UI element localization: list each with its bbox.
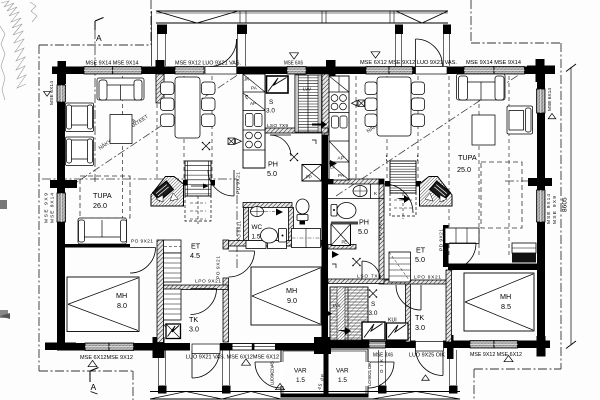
svg-text:MSE 6X14: MSE 6X14 — [49, 81, 55, 105]
svg-text:A: A — [91, 382, 97, 392]
svg-text:PD 9X21: PD 9X21 — [439, 229, 445, 251]
svg-text:LSO 7X9: LSO 7X9 — [357, 274, 381, 280]
svg-text:S: S — [371, 301, 375, 308]
svg-text:PO 9X21: PO 9X21 — [216, 256, 222, 279]
svg-text:OIK: OIK — [379, 359, 384, 373]
svg-text:LPO 9X21: LPO 9X21 — [414, 275, 441, 281]
svg-text:ET: ET — [416, 246, 426, 255]
svg-text:3.0: 3.0 — [415, 323, 425, 332]
svg-text:5.0: 5.0 — [358, 227, 368, 236]
svg-text:5.0: 5.0 — [415, 255, 425, 264]
svg-text:MSE 6X14: MSE 6X14 — [547, 88, 553, 111]
svg-text:LVV: LVV — [333, 303, 341, 308]
svg-text:PP: PP — [306, 175, 312, 180]
svg-text:TK: TK — [415, 313, 424, 322]
svg-text:PE: PE — [342, 240, 348, 245]
svg-text:26.0: 26.0 — [93, 201, 107, 210]
svg-text:S: S — [269, 99, 273, 106]
svg-text:PA: PA — [251, 86, 258, 91]
svg-text:PH: PH — [359, 218, 369, 227]
svg-text:MSE 9X14 MSE 9X14: MSE 9X14 MSE 9X14 — [86, 60, 139, 66]
svg-text:PH: PH — [268, 160, 278, 169]
svg-text:LUO 9X25 OIK: LUO 9X25 OIK — [409, 353, 446, 359]
svg-text:5.0: 5.0 — [267, 169, 277, 178]
svg-text:25.0: 25.0 — [457, 165, 471, 174]
svg-text:3.0: 3.0 — [266, 108, 275, 115]
svg-text:A: A — [96, 33, 102, 43]
svg-text:MH: MH — [500, 292, 511, 301]
svg-text:1.5: 1.5 — [338, 377, 347, 384]
svg-text:MSE 9X14: MSE 9X14 — [50, 193, 56, 223]
svg-text:MSE 6X12 MSE 9X12 LUO 9X21 VAS: MSE 6X12 MSE 9X12 LUO 9X21 VAS. — [360, 60, 457, 66]
svg-text:PD 9X21: PD 9X21 — [236, 172, 242, 194]
svg-text:4.5: 4.5 — [190, 251, 200, 260]
svg-text:8.0: 8.0 — [117, 301, 127, 310]
svg-text:LSO 7X9: LSO 7X9 — [267, 123, 288, 129]
svg-text:VAR: VAR — [294, 368, 307, 375]
svg-text:MSE 9X12 LUO 9X21 VAS.: MSE 9X12 LUO 9X21 VAS. — [175, 60, 241, 66]
svg-text:MSE 3X6: MSE 3X6 — [373, 352, 393, 358]
svg-text:MSE 9X12 MSE 6X12: MSE 9X12 MSE 6X12 — [470, 352, 522, 358]
svg-text:MSE 6X12MSE 9X12: MSE 6X12MSE 9X12 — [80, 355, 133, 361]
svg-text:LO 9X21 OIK: LO 9X21 OIK — [367, 361, 372, 386]
svg-text:LUO 9X21 VAS: LUO 9X21 VAS — [270, 361, 275, 385]
svg-text:VAR: VAR — [336, 368, 349, 375]
svg-text:LUO 9X21 VAS. MSE 6X12MSE 6X12: LUO 9X21 VAS. MSE 6X12MSE 6X12 — [186, 355, 279, 361]
svg-text:MSE 6X6: MSE 6X6 — [284, 60, 303, 66]
svg-text:MSE 9X14 MSE 9X14: MSE 9X14 MSE 9X14 — [466, 60, 521, 66]
svg-text:AP: AP — [250, 101, 256, 106]
svg-text:KUI: KUI — [388, 318, 397, 324]
svg-text:PO 8X21: PO 8X21 — [237, 220, 242, 241]
svg-text:1.5: 1.5 — [296, 377, 305, 384]
svg-text:TK: TK — [189, 315, 198, 324]
svg-text:9.0: 9.0 — [287, 296, 297, 305]
svg-text:AP: AP — [338, 156, 344, 161]
svg-text:3.0: 3.0 — [189, 325, 199, 334]
svg-text:3.0: 3.0 — [369, 310, 378, 317]
svg-text:MSE 9X14: MSE 9X14 — [546, 194, 552, 224]
svg-text:MH: MH — [116, 291, 127, 300]
svg-text:WC: WC — [252, 224, 263, 231]
svg-text:1.5: 1.5 — [252, 234, 261, 241]
svg-text:PO 9X21: PO 9X21 — [378, 216, 384, 240]
svg-text:8.5: 8.5 — [501, 302, 511, 311]
svg-text:8605: 8605 — [562, 197, 569, 212]
svg-text:MH: MH — [286, 286, 297, 295]
svg-text:TUPA: TUPA — [458, 153, 477, 162]
svg-text:TUPA: TUPA — [93, 191, 112, 200]
svg-text:PO 9X21: PO 9X21 — [131, 239, 153, 245]
svg-text:PA: PA — [338, 173, 345, 178]
svg-text:ET: ET — [191, 242, 201, 251]
svg-text:JK: JK — [244, 77, 250, 82]
svg-text:LVV: LVV — [303, 87, 311, 92]
